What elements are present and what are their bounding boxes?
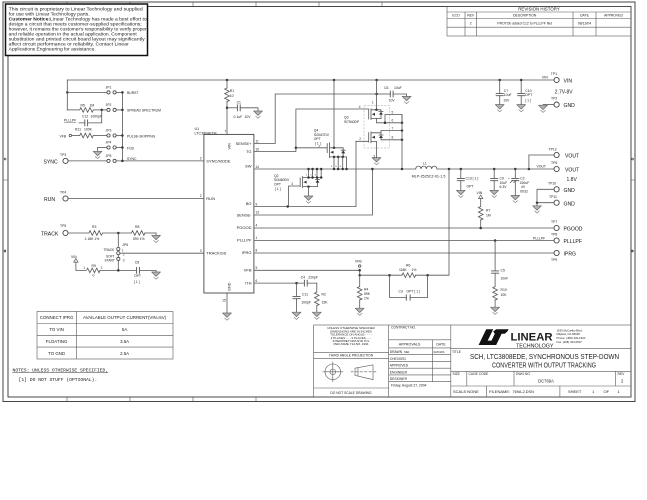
svg-text:C6: C6 <box>384 86 388 90</box>
ground at C2 <box>511 196 520 203</box>
svg-text:2: 2 <box>200 194 202 198</box>
svg-text:10V: 10V <box>503 99 510 103</box>
ground at C7 <box>495 105 504 112</box>
wire PGOOD <box>254 227 554 229</box>
svg-text:APPROVED: APPROVED <box>390 364 409 368</box>
svg-text:OF: OF <box>604 389 610 394</box>
svg-text:0: 0 <box>93 273 95 277</box>
test point TP11 GND <box>536 195 575 207</box>
svg-text:TO VIN: TO VIN <box>49 327 64 332</box>
svg-text:5: 5 <box>335 166 337 168</box>
jumper JP3 PULSE SKIPPING <box>93 129 155 139</box>
svg-text:R11: R11 <box>75 128 81 132</box>
svg-text:C1: C1 <box>237 101 241 105</box>
svg-text:3.5A: 3.5A <box>120 339 129 344</box>
svg-text:9: 9 <box>256 202 258 206</box>
svg-text:IPRG: IPRG <box>242 250 252 255</box>
svg-text:C9: C9 <box>500 176 504 180</box>
svg-text:590 1%: 590 1% <box>133 237 145 241</box>
capacitor C7 10uF 10V <box>496 79 512 105</box>
svg-text:10uF: 10uF <box>394 86 402 90</box>
svg-text:3: 3 <box>123 258 125 262</box>
ground at C10 <box>517 105 526 112</box>
svg-text:ENGINEER: ENGINEER <box>390 370 408 374</box>
svg-text:10: 10 <box>256 147 260 151</box>
svg-text:OPT: OPT <box>134 274 141 278</box>
op-amp U1 LTC3808EDE body <box>195 127 254 293</box>
node VOUT rail junctions <box>448 168 530 171</box>
svg-text:4V: 4V <box>521 185 526 189</box>
wire JP feed vertical <box>66 80 68 110</box>
sheet outer border <box>3 2 635 402</box>
notes text <box>13 367 109 383</box>
svg-text:3: 3 <box>200 249 202 253</box>
svg-text:GND: GND <box>564 201 576 207</box>
svg-text:JP6: JP6 <box>122 243 128 247</box>
svg-text:OPT: OPT <box>274 183 281 187</box>
svg-text:CHECKED: CHECKED <box>390 357 407 361</box>
svg-text:SYNC: SYNC <box>44 160 58 166</box>
inductor L1 <box>412 162 446 179</box>
wire ITH <box>254 282 305 285</box>
jumper JP5 SYNC <box>69 154 137 162</box>
svg-text:B: B <box>632 249 634 253</box>
svg-text:6.3V: 6.3V <box>500 185 508 189</box>
capacitor C13 OPT <box>457 169 479 190</box>
wire RUN <box>69 198 204 200</box>
svg-text:PGOOD: PGOOD <box>564 227 583 233</box>
svg-text:118K: 118K <box>399 268 407 272</box>
svg-text:VIN: VIN <box>564 79 573 85</box>
svg-text:TP8: TP8 <box>551 233 557 237</box>
wire SENSE+ <box>254 94 377 144</box>
title block size row <box>453 372 626 384</box>
svg-text:100K: 100K <box>84 128 93 132</box>
svg-text:JP2: JP2 <box>106 103 112 107</box>
svg-text:TP9: TP9 <box>551 258 557 262</box>
svg-text:MLP-2525CZ-01-1.5: MLP-2525CZ-01-1.5 <box>412 175 446 179</box>
svg-text:OPT: OPT <box>525 93 532 97</box>
svg-text:PULSE-SKIPPING: PULSE-SKIPPING <box>127 134 156 138</box>
pin numbers U1 <box>200 130 260 303</box>
wire SENSE- <box>254 168 374 215</box>
wire SW node <box>254 168 554 170</box>
svg-text:CONTRACT NO.: CONTRACT NO. <box>391 325 416 329</box>
svg-text:TP6: TP6 <box>551 161 557 165</box>
svg-text:C11: C11 <box>302 292 308 296</box>
svg-text:FLOATING: FLOATING <box>46 339 68 344</box>
svg-text:C5: C5 <box>501 268 505 272</box>
ground at Q3 source <box>372 158 381 165</box>
svg-text:R10: R10 <box>501 288 507 292</box>
svg-text:11: 11 <box>256 139 260 143</box>
resistor R7 1M pull-up <box>477 191 491 229</box>
svg-text:2.7V-8V: 2.7V-8V <box>555 90 573 96</box>
svg-text:1.8V: 1.8V <box>567 177 578 183</box>
jumper JP6 TRACK/SOFT-START <box>104 233 129 270</box>
test point TP9 IPRG <box>551 250 576 262</box>
capacitor C8 OPT <box>134 260 156 284</box>
jumper JP2 SPREAD SPECTRUM <box>93 103 161 113</box>
resistor R10 10K <box>493 287 507 308</box>
svg-text:Si7540DP: Si7540DP <box>344 120 360 124</box>
svg-text:R8: R8 <box>135 225 139 229</box>
resistor R8 590 1% <box>103 225 157 241</box>
svg-text:1%: 1% <box>412 268 417 272</box>
svg-text:4: 4 <box>331 166 333 168</box>
transistor U2 Q3 Si7540DP dual <box>344 80 403 170</box>
svg-text:5: 5 <box>256 266 258 270</box>
svg-text:[ 1 ]: [ 1 ] <box>525 99 531 103</box>
title block tolerance notes <box>327 326 375 395</box>
svg-text:10V: 10V <box>389 98 396 102</box>
svg-text:TO GND: TO GND <box>48 351 65 356</box>
svg-text:Friday, August 27, 2004: Friday, August 27, 2004 <box>391 383 427 387</box>
title block scale row <box>453 389 621 394</box>
svg-text:2: 2 <box>621 379 624 384</box>
svg-text:PLLLPF: PLLLPF <box>564 239 582 245</box>
svg-text:6: 6 <box>340 166 342 168</box>
ground at TP11 <box>533 203 542 213</box>
test point TP2 GND <box>539 97 576 113</box>
svg-text:2.5A: 2.5A <box>120 351 129 356</box>
svg-text:02/04/04: 02/04/04 <box>434 350 445 354</box>
ground at U1 GND pin <box>223 293 232 320</box>
svg-text:VIN: VIN <box>228 143 232 150</box>
svg-text:R3: R3 <box>92 225 96 229</box>
svg-text:THIRD ANGLE PROJECTION: THIRD ANGLE PROJECTION <box>329 354 374 358</box>
test point TP4 RUN <box>44 191 68 204</box>
svg-text:10nF: 10nF <box>501 276 509 280</box>
svg-text:RUN: RUN <box>44 197 55 203</box>
capacitor C9 10uF 6.3V <box>490 169 507 190</box>
svg-text:5: 5 <box>392 111 394 115</box>
svg-text:LTC3808EDE: LTC3808EDE <box>195 132 218 136</box>
svg-text:SCALE:NONE: SCALE:NONE <box>453 389 479 394</box>
svg-text:7: 7 <box>392 127 394 131</box>
svg-text:R4: R4 <box>364 288 368 292</box>
revision history table <box>447 7 631 37</box>
test point TP12 VOUT <box>529 147 579 169</box>
third angle projection symbol <box>323 362 378 382</box>
svg-text:TP12: TP12 <box>549 147 557 151</box>
logo LINEAR TECHNOLOGY <box>479 328 586 349</box>
svg-text:15: 15 <box>222 299 226 303</box>
svg-text:R5: R5 <box>81 103 85 107</box>
wire TG <box>254 105 369 152</box>
wire VIN top rail <box>67 79 553 81</box>
svg-text:7: 7 <box>224 130 226 134</box>
svg-text:10: 10 <box>230 94 234 98</box>
svg-text:REVISION HISTORY: REVISION HISTORY <box>518 7 560 12</box>
resistor R4 59K 1% <box>357 275 370 308</box>
svg-text:C13 [ 1 ]: C13 [ 1 ] <box>466 176 479 180</box>
capacitor C6 10uF 10V <box>375 86 406 103</box>
svg-text:VFB: VFB <box>60 134 67 138</box>
svg-text:C4: C4 <box>301 276 305 280</box>
svg-text:C8: C8 <box>135 260 139 264</box>
svg-text:C2: C2 <box>520 176 524 180</box>
svg-text:SW: SW <box>245 164 252 169</box>
svg-text:VOUT: VOUT <box>565 154 579 160</box>
svg-text:6032: 6032 <box>520 190 528 194</box>
title text <box>452 350 619 370</box>
svg-text:PLLLPF: PLLLPF <box>533 237 545 241</box>
wire JP6-2 to TRACK/SS <box>120 252 204 254</box>
svg-text:Si3460DV: Si3460DV <box>274 178 290 182</box>
wire BG <box>254 141 356 207</box>
ground at R10 <box>491 307 500 314</box>
svg-text:NOTES: UNLESS OTHERWISE SPECIF: NOTES: UNLESS OTHERWISE SPECIFIED, <box>13 367 109 373</box>
svg-text:10uF: 10uF <box>500 181 508 185</box>
svg-text:4: 4 <box>256 223 258 227</box>
ground at C1 <box>254 111 263 118</box>
svg-text:1000pF: 1000pF <box>91 114 103 118</box>
svg-text:REV: REV <box>467 14 475 18</box>
svg-text:OPT: OPT <box>467 184 474 188</box>
svg-text:ITH: ITH <box>245 280 252 285</box>
test point TP3 SYNC <box>44 153 69 166</box>
svg-text:2: 2 <box>101 266 103 270</box>
transistor Q2 Si3460DV <box>274 168 322 207</box>
svg-text:08/13/04: 08/13/04 <box>578 21 591 25</box>
svg-text:8: 8 <box>392 136 394 140</box>
svg-text:15K: 15K <box>322 300 329 304</box>
svg-text:TP3: TP3 <box>60 153 66 157</box>
svg-text:1M: 1M <box>486 213 491 217</box>
svg-text:RUN: RUN <box>206 196 215 201</box>
svg-text:IPRG: IPRG <box>564 252 576 258</box>
svg-text:GND: GND <box>228 282 232 291</box>
svg-text:JP4: JP4 <box>106 141 112 145</box>
svg-text:[ 1 ]: [ 1 ] <box>134 280 140 284</box>
svg-text:10uF: 10uF <box>504 93 512 97</box>
ground at JP4 <box>93 148 102 159</box>
svg-text:6: 6 <box>256 279 258 283</box>
svg-text:OPT: OPT <box>314 137 321 141</box>
svg-text:C12: C12 <box>82 114 88 118</box>
svg-text:FILENAME:: FILENAME: <box>489 389 510 394</box>
sheet zone ticks <box>3 2 635 402</box>
svg-text:1M: 1M <box>90 103 95 107</box>
svg-text:VIN: VIN <box>477 191 483 195</box>
svg-text:VFB: VFB <box>244 268 252 273</box>
jumper JP1 BURST <box>67 86 138 96</box>
svg-text:BG: BG <box>246 201 252 206</box>
capacitor C2 150uF 4V <box>508 169 529 196</box>
svg-text:B: B <box>4 249 6 253</box>
svg-text:TITLE: TITLE <box>452 350 462 354</box>
svg-text:Si3447DV: Si3447DV <box>314 133 330 137</box>
svg-text:JP1: JP1 <box>106 86 112 90</box>
svg-text:3: 3 <box>315 175 317 177</box>
proprietary notice box <box>6 4 148 56</box>
svg-text:SYNC: SYNC <box>127 157 137 161</box>
wire VFB <box>254 259 362 276</box>
svg-text:R2: R2 <box>322 292 326 296</box>
node PLLLPF net stub <box>64 119 76 123</box>
svg-text:SENSE-: SENSE- <box>237 213 253 218</box>
svg-text:1: 1 <box>256 236 258 240</box>
svg-text:14: 14 <box>256 165 260 169</box>
svg-text:PER ASME Y14.5M -1994: PER ASME Y14.5M -1994 <box>334 342 369 346</box>
svg-text:VOUT: VOUT <box>565 168 579 174</box>
svg-text:150uF: 150uF <box>520 181 530 185</box>
svg-text:[ 1 ]: [ 1 ] <box>275 187 281 191</box>
svg-text:TP10: TP10 <box>548 182 556 186</box>
test point TP10 GND <box>537 182 575 203</box>
svg-text:Q3: Q3 <box>344 116 349 120</box>
svg-text:U1: U1 <box>195 127 200 131</box>
svg-text:TP4: TP4 <box>60 191 66 195</box>
resistor R1 10 <box>225 80 235 134</box>
svg-text:Q2: Q2 <box>274 174 279 178</box>
ground at R4 <box>355 308 364 315</box>
svg-text:L1: L1 <box>423 162 427 166</box>
svg-text:REV: REV <box>618 372 626 376</box>
resistor R6 118K 1% <box>360 169 449 278</box>
test point TP6 VOUT <box>537 161 580 183</box>
ground at C8 <box>152 270 161 279</box>
svg-text:AVAILABLE OUTPUT CURRENT(VIN=5: AVAILABLE OUTPUT CURRENT(VIN=5V) <box>83 315 167 320</box>
svg-text:TECHNOLOGY: TECHNOLOGY <box>516 344 554 350</box>
svg-text:FCB: FCB <box>127 146 135 150</box>
svg-text:13: 13 <box>256 210 260 214</box>
svg-text:769A-2.DSN: 769A-2.DSN <box>513 390 535 394</box>
svg-text:R6: R6 <box>406 264 410 268</box>
capacitor C3 OPT <box>390 275 428 300</box>
svg-text:SENSE+: SENSE+ <box>236 141 253 146</box>
svg-text:1.18K 1%: 1.18K 1% <box>85 237 100 241</box>
svg-text:TP5: TP5 <box>60 224 66 228</box>
svg-text:1: 1 <box>618 389 621 394</box>
svg-text:PLLLPF: PLLLPF <box>64 119 76 123</box>
svg-text:DO NOT SCALE DRAWING: DO NOT SCALE DRAWING <box>330 391 372 395</box>
resistor R3 1.18K 1% <box>69 225 103 241</box>
svg-text:PGOOD: PGOOD <box>237 225 252 230</box>
node VFB net stub <box>60 134 72 138</box>
resistor R2 15K <box>315 292 329 312</box>
svg-text:GND: GND <box>564 103 576 109</box>
svg-text:3: 3 <box>291 182 293 186</box>
node VIN rail junctions <box>66 79 378 94</box>
svg-text:BURST: BURST <box>127 91 139 95</box>
svg-text:Applications Engineering for a: Applications Engineering for assistance. <box>9 46 96 51</box>
svg-text:C3: C3 <box>399 289 403 293</box>
svg-text:2: 2 <box>200 157 202 161</box>
svg-text:TP7: TP7 <box>551 220 557 224</box>
capacitor C12 1000pF <box>79 110 102 126</box>
svg-text:APPROVED: APPROVED <box>604 14 623 18</box>
capacitor C11 100pF <box>293 283 311 312</box>
svg-text:R7: R7 <box>486 209 490 213</box>
svg-text:4: 4 <box>359 105 361 109</box>
svg-text:1%: 1% <box>364 296 369 300</box>
svg-text:DESCRIPTION: DESCRIPTION <box>513 14 537 18</box>
svg-text:10K: 10K <box>501 293 508 297</box>
svg-text:1: 1 <box>306 175 308 177</box>
svg-text:PROTOb added C12 to PLLLPF Net: PROTOb added C12 to PLLLPF Net <box>497 21 552 25</box>
capacitor C5 10nF <box>491 239 508 286</box>
test point TP8 PLLLPF <box>551 233 582 246</box>
svg-text:LINEAR: LINEAR <box>511 331 553 343</box>
svg-text:VIN: VIN <box>71 255 77 259</box>
svg-text:1: 1 <box>592 389 595 394</box>
svg-text:C: C <box>632 157 635 161</box>
ground at C6 <box>402 96 411 103</box>
svg-text:START: START <box>105 258 115 262</box>
resistor R5 1M <box>67 103 94 112</box>
svg-text:5A: 5A <box>122 327 127 332</box>
svg-text:0.1uF: 0.1uF <box>234 115 243 119</box>
ground at Q2 <box>304 196 313 203</box>
svg-text:SHEET: SHEET <box>568 389 582 394</box>
svg-text:DATE: DATE <box>436 343 446 347</box>
svg-text:JP3: JP3 <box>106 129 112 133</box>
svg-text:MEI: MEI <box>404 350 410 354</box>
svg-text:[1] DO NOT STUFF (OPTIONAL).: [1] DO NOT STUFF (OPTIONAL). <box>19 377 98 383</box>
svg-text:SIZE: SIZE <box>453 372 461 376</box>
capacitor C1 0.1uF 10V <box>227 101 258 120</box>
svg-text:CONVERTER WITH OUTPUT TRACKING: CONVERTER WITH OUTPUT TRACKING <box>492 360 596 369</box>
title block frame <box>314 325 631 397</box>
resistor R9 0 <box>83 264 136 277</box>
svg-text:1: 1 <box>372 100 374 104</box>
svg-text:10V: 10V <box>245 115 252 119</box>
svg-text:DWG NO: DWG NO <box>516 372 530 376</box>
wire IPRG <box>254 252 554 254</box>
svg-text:DRAWN: DRAWN <box>390 350 403 354</box>
svg-text:TRACK: TRACK <box>104 248 116 252</box>
test point TP1 VIN <box>542 72 573 96</box>
svg-text:2: 2 <box>470 21 472 25</box>
svg-text:SYNC/MODE: SYNC/MODE <box>206 158 231 163</box>
capacitor C10 OPT <box>517 79 532 105</box>
test point TP5 TRACK <box>41 224 68 238</box>
svg-text:DATE: DATE <box>580 14 590 18</box>
svg-text:100pF: 100pF <box>301 300 311 304</box>
resistor R11 100K <box>72 128 94 138</box>
svg-text:PLLLPF: PLLLPF <box>237 238 252 243</box>
svg-text:Q4: Q4 <box>314 128 319 132</box>
node VIN net arrow at R9 <box>71 255 86 271</box>
transistor Q4 Si3447DV <box>296 80 348 170</box>
title block approvals column <box>390 325 446 387</box>
capacitor C4 220pF <box>301 276 318 292</box>
ground at C13 <box>456 190 465 197</box>
svg-text:DC769A: DC769A <box>538 379 554 384</box>
svg-text:R9: R9 <box>92 264 96 268</box>
ground at C9 <box>490 190 499 197</box>
svg-text:TG: TG <box>246 149 252 154</box>
svg-text:TP2: TP2 <box>551 97 557 101</box>
svg-text:SPREAD SPECTRUM: SPREAD SPECTRUM <box>127 109 161 113</box>
svg-text:CAGE CODE: CAGE CODE <box>469 372 490 376</box>
svg-text:59K: 59K <box>364 292 371 296</box>
svg-text:DESIGNER: DESIGNER <box>390 377 408 381</box>
ground at R8 <box>152 233 161 243</box>
svg-text:VIN: VIN <box>542 75 548 79</box>
jumper JP4 FCB <box>98 141 135 151</box>
svg-text:GND: GND <box>564 188 576 194</box>
svg-text:C: C <box>4 157 7 161</box>
svg-text:TRACK/SS: TRACK/SS <box>206 251 226 256</box>
svg-text:2: 2 <box>359 137 361 141</box>
svg-text:CONNECT IPRG: CONNECT IPRG <box>40 315 74 320</box>
ground at R2 <box>312 312 321 319</box>
IPRG options table <box>37 312 173 360</box>
wire mode select bus <box>116 91 204 162</box>
